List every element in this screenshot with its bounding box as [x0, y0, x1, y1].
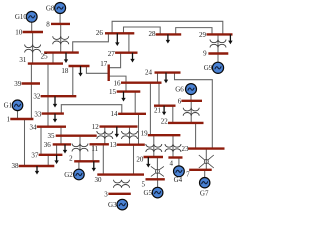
svg-text:7: 7: [186, 171, 190, 179]
transformer T30-3: [114, 180, 130, 188]
generator G4: [174, 166, 185, 184]
transformer T29-9: [210, 40, 226, 48]
wire 9-G9 lead: [217, 54, 219, 63]
bus 34: [30, 123, 67, 131]
load on bus 18: [78, 66, 82, 77]
svg-text:38: 38: [12, 162, 20, 170]
svg-text:6: 6: [178, 97, 182, 105]
transformer T23-7: [199, 155, 214, 168]
wire 11-30: [102, 144, 104, 174]
svg-text:1: 1: [7, 116, 11, 124]
svg-text:19: 19: [141, 130, 149, 138]
wire 19 to transformer to 20: [153, 135, 155, 157]
wire 29 to transformer to 9: [217, 34, 219, 53]
bus 5: [142, 179, 165, 188]
bus 26: [96, 29, 134, 37]
wire 15-14: [134, 92, 136, 114]
wire 14-13: [138, 114, 140, 145]
load on bus 12: [115, 127, 119, 138]
transformer T12-13: [122, 131, 138, 139]
bus 38: [12, 162, 55, 170]
svg-text:26: 26: [96, 29, 104, 37]
svg-text:G8: G8: [46, 5, 55, 13]
svg-text:11: 11: [91, 145, 98, 153]
wire G6-6 lead: [190, 94, 192, 101]
generator G9: [204, 62, 224, 73]
generator G5: [143, 187, 162, 198]
wire G1 lead: [17, 110, 19, 119]
generator G3: [108, 199, 128, 210]
wire 24-23: [175, 73, 213, 149]
bus 36: [44, 141, 71, 149]
wire 6 to transformer to 22: [190, 101, 192, 123]
bus 23: [182, 145, 225, 153]
wire 8 to transformer to 25: [60, 24, 62, 53]
wire 16-19: [149, 83, 151, 136]
bus 13: [110, 141, 145, 149]
svg-text:22: 22: [161, 118, 169, 126]
svg-text:10: 10: [15, 28, 23, 36]
wire 19 to transformer to 4: [172, 135, 174, 157]
wire 13-30: [133, 145, 135, 175]
load on bus 28: [166, 34, 170, 43]
wire 16-21: [158, 83, 160, 106]
svg-text:16: 16: [114, 80, 122, 88]
svg-text:4: 4: [169, 160, 173, 168]
bus 15: [109, 88, 140, 96]
svg-text:G6: G6: [175, 86, 184, 94]
bus 31: [19, 56, 63, 64]
wire 12 to transformer to 13: [129, 127, 131, 145]
svg-text:18: 18: [61, 67, 69, 75]
wire 4-G4 lead: [178, 158, 180, 167]
bus 33: [34, 110, 64, 118]
transformer T20-5: [151, 166, 164, 176]
bus 25: [41, 53, 79, 61]
bus 28: [149, 30, 182, 38]
svg-text:35: 35: [48, 132, 56, 140]
svg-text:8: 8: [46, 20, 50, 28]
wire G2 lead: [78, 161, 80, 169]
load on bus 2: [92, 161, 96, 171]
bus 39: [14, 80, 40, 88]
transformer T10-31: [25, 45, 41, 53]
svg-text:37: 37: [31, 151, 39, 159]
bus 22: [161, 118, 204, 126]
generator G1: [4, 100, 23, 111]
generator G7: [200, 178, 210, 198]
bus 11: [90, 144, 109, 153]
bus 30: [95, 175, 145, 184]
svg-text:G2: G2: [64, 171, 73, 179]
wire 31-39-1: [30, 63, 32, 119]
bus 24: [145, 69, 181, 77]
load on bus 29: [228, 34, 232, 44]
bus 18: [61, 66, 89, 75]
wire 7-G7 lead: [204, 170, 206, 178]
wire 23 to transformer to 7: [205, 148, 207, 169]
generator G6: [175, 84, 196, 95]
svg-text:30: 30: [95, 176, 103, 184]
svg-text:21: 21: [154, 106, 162, 114]
wire 21-22: [172, 106, 174, 123]
transformer T35-2: [72, 144, 88, 152]
wire 31-32-33-34: [47, 63, 49, 126]
load on bus 33: [53, 114, 57, 123]
svg-text:G3: G3: [108, 201, 117, 209]
wire 24-16: [157, 73, 159, 83]
svg-text:15: 15: [109, 88, 117, 96]
bus 12: [92, 123, 138, 131]
generator G10: [15, 11, 37, 22]
svg-text:33: 33: [34, 110, 42, 118]
svg-text:25: 25: [41, 53, 49, 61]
wire 37-38: [47, 155, 49, 166]
bus 9: [203, 50, 228, 58]
bus 32: [33, 93, 76, 101]
wire 25-31: [52, 53, 54, 64]
wire 26-27: [128, 33, 130, 52]
load on bus 21: [162, 106, 166, 116]
load on bus 25: [64, 53, 68, 63]
transformer T6-22: [183, 108, 199, 116]
svg-text:G9: G9: [204, 64, 213, 72]
wire 18-17: [86, 66, 108, 73]
bus 14: [111, 110, 147, 118]
svg-text:2: 2: [69, 155, 73, 163]
svg-text:G5: G5: [143, 189, 152, 197]
wire G8 lead: [59, 13, 61, 24]
svg-text:13: 13: [110, 141, 118, 149]
svg-text:23: 23: [182, 145, 190, 153]
bus 10: [15, 28, 43, 36]
wire 34-35-36: [60, 127, 62, 145]
wire 10 to transformer to 31: [32, 32, 34, 63]
bus 21: [154, 106, 176, 115]
svg-text:28: 28: [149, 30, 157, 38]
svg-text:27: 27: [108, 50, 116, 58]
svg-text:G10: G10: [15, 13, 28, 21]
transformer T12-11: [97, 131, 113, 139]
wire 18-32: [72, 66, 74, 96]
bus 4: [168, 158, 182, 168]
svg-text:34: 34: [30, 123, 38, 131]
load on bus 26: [115, 33, 119, 46]
wire 33-14: [61, 105, 122, 114]
bus 16: [114, 80, 162, 88]
svg-text:20: 20: [136, 155, 144, 163]
load on bus 24: [164, 73, 168, 84]
svg-text:G1: G1: [4, 102, 13, 110]
wire 2 to transformer to 35: [79, 136, 81, 162]
svg-text:14: 14: [111, 110, 119, 118]
bus 1: [7, 116, 34, 124]
svg-text:36: 36: [44, 141, 52, 149]
svg-text:5: 5: [142, 180, 146, 188]
load on bus 20: [146, 157, 150, 168]
bus 6: [178, 97, 202, 105]
wire 26-29: [112, 21, 223, 34]
wire 16-15: [125, 83, 127, 92]
bus 2: [69, 155, 99, 163]
bus 17 (vertical busbar): [100, 60, 109, 81]
svg-text:39: 39: [14, 80, 22, 88]
bus 7: [186, 170, 212, 179]
wire 12 to transformer to 11: [104, 127, 106, 145]
svg-text:29: 29: [199, 31, 207, 39]
wire 26-28: [124, 27, 161, 34]
transformer T8-25: [53, 36, 69, 44]
svg-text:9: 9: [203, 50, 207, 58]
bus 3: [104, 190, 131, 198]
generator G8: [46, 3, 66, 14]
load on bus 15: [121, 92, 125, 102]
bus 8: [46, 20, 70, 28]
bus 20: [136, 155, 163, 163]
wire G10 lead: [31, 21, 33, 32]
wire 17-16: [109, 76, 126, 83]
load on bus 32: [53, 96, 57, 107]
svg-text:G7: G7: [200, 190, 209, 198]
svg-text:G4: G4: [174, 176, 183, 184]
svg-text:32: 32: [33, 93, 41, 101]
svg-text:17: 17: [100, 60, 108, 68]
bus 29: [199, 31, 233, 39]
svg-text:12: 12: [92, 123, 100, 131]
svg-text:3: 3: [104, 190, 108, 198]
wire 17-27: [109, 53, 121, 68]
bus 37: [31, 151, 62, 159]
transformer T19-4: [165, 144, 181, 152]
load on bus 37: [54, 155, 58, 164]
load on bus 27: [130, 53, 134, 63]
wire 34-37: [40, 127, 42, 155]
wire 28-29: [176, 28, 212, 35]
bus 35: [48, 132, 97, 140]
transformer T19-20: [146, 144, 162, 152]
load on bus 36: [63, 144, 67, 153]
bus 19: [141, 130, 181, 138]
svg-text:31: 31: [19, 56, 27, 64]
wire 1-38: [24, 119, 26, 166]
wire 22-23: [195, 123, 197, 148]
wire 5-G5 lead: [157, 179, 159, 187]
wire 20 to transformer to 5: [156, 157, 158, 179]
bus 27: [108, 50, 138, 58]
wire 25-26: [73, 33, 109, 52]
generator G2: [64, 169, 84, 180]
svg-text:24: 24: [145, 69, 153, 77]
load on bus 38: [35, 166, 39, 175]
wire 11-2: [92, 144, 94, 161]
wire 36-37: [56, 144, 58, 154]
